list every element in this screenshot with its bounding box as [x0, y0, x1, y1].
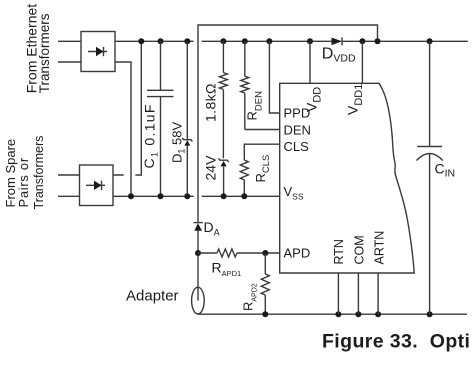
svg-text:VDD1: VDD1: [345, 84, 366, 115]
bridge rectifier B2 (bottom): [80, 165, 114, 206]
svg-text:D1 58V: D1 58V: [170, 122, 187, 163]
adapter source: [192, 287, 205, 314]
svg-text:24V: 24V: [203, 155, 219, 181]
diode D_VDD: [332, 37, 343, 45]
svg-text:DVDD: DVDD: [322, 46, 356, 65]
label: From Ethernet Transformers: [23, 4, 52, 94]
IC U1 outline: [280, 83, 415, 273]
svg-text:ARTN: ARTN: [373, 231, 387, 265]
svg-text:RAPD1: RAPD1: [212, 260, 242, 279]
resistor R_CLS: [240, 160, 248, 196]
svg-text:Pairs or: Pairs or: [16, 157, 31, 207]
resistor R_APD1: [198, 249, 280, 257]
svg-text:Figure 33. Opti: Figure 33. Opti: [322, 331, 470, 353]
resistor R_APD2: [261, 253, 269, 314]
wire: VDD pin lead: [309, 41, 311, 83]
wire: top input pair from ethernet: [58, 41, 81, 62]
svg-text:APD: APD: [284, 246, 311, 261]
svg-text:Transformers: Transformers: [32, 136, 46, 210]
svg-text:RTN: RTN: [332, 239, 346, 264]
wire: ARTN pin lead: [377, 273, 379, 314]
node: top rail junctions: [138, 38, 432, 44]
capacitor C_IN: [417, 41, 443, 314]
svg-text:C1 0.1uF: C1 0.1uF: [141, 103, 160, 168]
bridge rectifier B1 (top): [81, 32, 115, 72]
zener D1: [182, 41, 192, 196]
svg-text:Adapter: Adapter: [126, 288, 179, 305]
node: VSS rail junctions: [128, 193, 247, 199]
svg-text:CIN: CIN: [435, 161, 456, 180]
zener 24V: [219, 158, 229, 196]
node: adapter junction: [195, 250, 201, 256]
resistor R_DEN: [241, 41, 280, 129]
node: bottom rail junctions: [262, 311, 432, 317]
capacitor C1: [147, 41, 174, 196]
wire: COM pin lead: [357, 273, 359, 314]
wire: CLS to R_CLS: [244, 144, 279, 160]
svg-text:DA: DA: [204, 219, 220, 238]
wire: VDD1 pin lead: [361, 41, 363, 83]
svg-text:DEN: DEN: [284, 123, 311, 138]
wire: top rail (VDD rail): [115, 40, 468, 42]
svg-text:COM: COM: [353, 235, 367, 264]
svg-text:Transformers: Transformers: [37, 13, 52, 93]
wire: adapter feed loop (top): [198, 25, 378, 223]
svg-text:RDEN: RDEN: [245, 91, 265, 121]
diode D_A: [194, 223, 203, 301]
wire: RTN pin lead: [337, 273, 339, 314]
svg-text:1.8kΩ: 1.8kΩ: [203, 83, 219, 122]
wire: bridge B2 positive up lead: [113, 41, 141, 175]
resistor 1.8k: [219, 41, 227, 158]
svg-text:CLS: CLS: [284, 139, 310, 154]
wire: VSS rail: [113, 195, 280, 197]
node: APD junction: [262, 250, 268, 256]
wire: bridge B1 negative down lead: [115, 62, 131, 196]
svg-text:VDD: VDD: [304, 87, 324, 112]
wire: bottom input pair from spare: [58, 175, 80, 196]
svg-text:RAPD2: RAPD2: [241, 283, 259, 311]
wire: PPD pull: [269, 41, 279, 113]
svg-text:VSS: VSS: [284, 184, 304, 202]
svg-text:RCLS: RCLS: [253, 155, 272, 183]
wire: bottom rail: [198, 313, 467, 315]
label: From Spare Pairs or Transformers: [3, 136, 46, 210]
